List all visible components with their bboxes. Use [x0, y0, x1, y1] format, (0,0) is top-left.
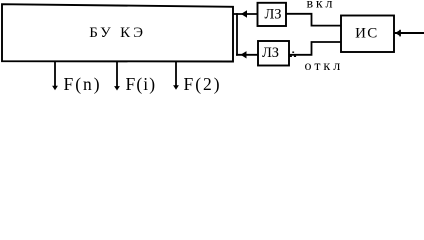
svg-text:ЛЗ: ЛЗ: [264, 7, 281, 23]
block BU KE (БУ КЭ): [2, 4, 233, 61]
output arrow F(2): [173, 62, 179, 90]
wire branch to lower LZ: [236, 54, 258, 56]
arrowhead into IS: [395, 30, 401, 37]
svg-text:ИС: ИС: [355, 26, 378, 42]
delay line LZ2 (ЛЗ lower): [258, 41, 289, 66]
svg-text:F(i): F(i): [126, 74, 157, 94]
output arrow F(n): [52, 62, 58, 91]
arrowhead into BU KE (upper): [241, 10, 247, 17]
svg-text:вкл: вкл: [307, 0, 336, 12]
wire upper LZ to IS: [286, 14, 341, 26]
svg-text:откл: откл: [305, 59, 344, 74]
delay line LZ1 (ЛЗ upper): [258, 3, 287, 26]
wire branch vertical: [236, 13, 238, 56]
svg-text:ЛЗ: ЛЗ: [262, 45, 279, 61]
svg-text:F(n): F(n): [64, 74, 102, 94]
block IS (ИС): [341, 16, 394, 53]
arrowhead into branch (lower): [241, 51, 247, 58]
external input wire into IS: [394, 32, 424, 34]
wire BU KE to upper LZ: [233, 13, 258, 15]
output arrow F(i): [114, 62, 120, 91]
wire lower LZ to IS: [289, 42, 341, 55]
svg-text:БУ КЭ: БУ КЭ: [89, 25, 146, 41]
arrowhead remnant at lower LZ output: [292, 52, 294, 53]
svg-text:F(2): F(2): [184, 74, 222, 94]
